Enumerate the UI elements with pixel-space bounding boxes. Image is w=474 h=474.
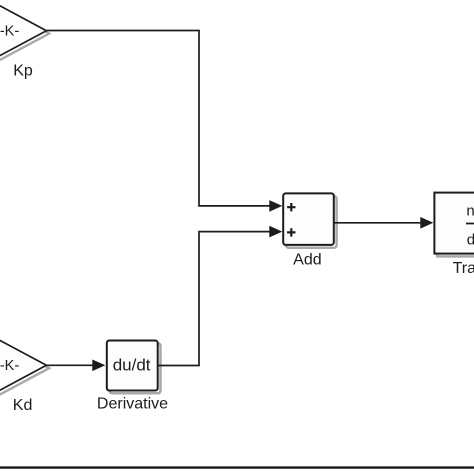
- block Transfer Fcn: [434, 193, 474, 254]
- wire Derivative to Add (bottom): [158, 232, 271, 366]
- svg-text:num(s): num(s): [466, 202, 474, 219]
- bottom rule line: [0, 466, 474, 468]
- gain Kp shadow: [0, 4, 49, 64]
- wire Add to Transfer Fcn: [334, 222, 422, 224]
- gain Kd: [0, 335, 46, 395]
- block Add: [283, 193, 334, 245]
- Transfer Fcn fraction bar: [466, 223, 474, 225]
- arrowhead into Add input 1: [269, 200, 282, 212]
- gain Kp: [0, 1, 46, 61]
- svg-text:Transfer Fcn: Transfer Fcn: [453, 260, 474, 277]
- gain Kd shadow: [0, 338, 49, 398]
- Add plus sign input 2: [287, 228, 295, 236]
- block Add shadow: [286, 196, 337, 248]
- arrowhead into Add input 2: [269, 226, 282, 238]
- Add plus sign input 1: [287, 203, 295, 211]
- wire Kd to Derivative: [46, 364, 93, 366]
- block Transfer Fcn shadow: [437, 195, 474, 256]
- wire Kp to Add (top): [46, 31, 270, 206]
- svg-text:du/dt: du/dt: [113, 355, 151, 374]
- block Derivative shadow: [110, 343, 161, 393]
- arrowhead into Transfer Fcn: [420, 217, 433, 229]
- svg-text:-K-: -K-: [0, 24, 19, 40]
- arrowhead into Derivative: [92, 360, 105, 372]
- svg-text:-K-: -K-: [0, 358, 19, 374]
- svg-text:Add: Add: [293, 251, 321, 268]
- svg-text:Derivative: Derivative: [97, 395, 168, 412]
- svg-text:Kp: Kp: [13, 63, 33, 80]
- svg-text:den(s): den(s): [467, 232, 474, 249]
- block Derivative: [107, 341, 158, 391]
- svg-text:Kd: Kd: [13, 397, 33, 414]
